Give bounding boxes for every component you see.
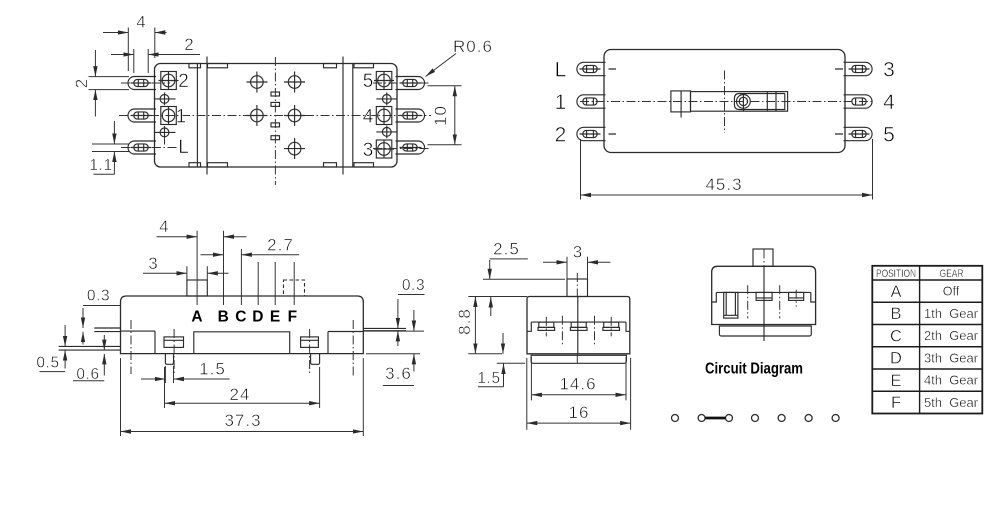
svg-text:POSITION: POSITION — [876, 268, 916, 280]
svg-text:1: 1 — [555, 91, 567, 114]
view2 terminal 5 — [844, 127, 873, 140]
svg-text:L: L — [178, 137, 189, 158]
table position letters — [890, 283, 902, 412]
view3 dim 37.3 line — [121, 431, 364, 433]
view5 right contact cup — [789, 292, 804, 300]
view3 dim 0.5 leader — [40, 371, 66, 373]
view5 section centerline — [763, 250, 765, 267]
svg-text:3: 3 — [883, 59, 895, 82]
svg-text:2: 2 — [72, 78, 91, 88]
svg-text:B: B — [890, 305, 901, 323]
view1 dim 4 extension lines — [128, 28, 155, 72]
svg-text:1.1: 1.1 — [89, 157, 112, 174]
view3 dim 0.5 arrows — [64, 325, 66, 346]
svg-text:C: C — [235, 308, 246, 325]
view1 right clip verticals — [343, 57, 353, 175]
svg-text:4: 4 — [136, 13, 146, 32]
svg-text:3th Gear: 3th Gear — [924, 352, 978, 366]
svg-text:A: A — [191, 308, 202, 325]
view1 right contact rect 5 — [374, 71, 394, 90]
view1 left contact rect 2 — [159, 71, 179, 90]
view1 terminal pin 2 (left top) — [128, 77, 156, 90]
view3 bottom right block — [328, 332, 363, 354]
view2 body outline — [604, 50, 845, 153]
view1 horizontal centerline (row 1-4) — [119, 115, 431, 117]
view4 dim 2.5 arrows — [489, 260, 491, 279]
view3 dim 3 extension ticks — [187, 266, 207, 280]
view4 dim 14.6 extension lines — [531, 357, 626, 400]
svg-text:4: 4 — [883, 91, 895, 114]
svg-text:14.6: 14.6 — [559, 375, 596, 394]
view4 centerlines between cups — [562, 316, 594, 345]
svg-text:F: F — [288, 308, 297, 325]
view1 dim 2 extension lines — [134, 49, 148, 73]
view1 terminal pin L (left bottom) — [128, 141, 156, 154]
view1 left clip verticals — [197, 57, 207, 175]
view2 terminal 2 — [577, 127, 606, 140]
view4 dim 1.5 arrows — [502, 333, 504, 354]
svg-text:24: 24 — [230, 385, 251, 404]
view2 terminal 1 — [577, 95, 606, 108]
view2 dim 45.3 line — [581, 194, 873, 196]
svg-text:L: L — [555, 59, 567, 82]
view3 left lower lead — [59, 346, 121, 350]
view1 terminal pin 1 (left mid) — [128, 109, 156, 122]
svg-text:1th Gear: 1th Gear — [924, 307, 978, 321]
svg-text:3: 3 — [148, 254, 158, 273]
view3 phantom knob position F — [284, 280, 305, 296]
table row lines — [872, 280, 982, 391]
view5 left contact well — [724, 292, 738, 318]
view4 dim 8.8 line — [474, 297, 476, 354]
view1 right contact rect 3 — [374, 140, 394, 159]
contact link bar between dot 2 and dot 3 — [705, 417, 725, 420]
view4 dim 16 line — [527, 422, 631, 424]
view1 dim 1.1 extension lines — [92, 144, 129, 152]
view2 slider left block — [671, 91, 691, 118]
svg-text:3: 3 — [363, 140, 374, 161]
view3 left upper lead — [94, 328, 120, 332]
view1 terminal pin 3 (right bottom) — [396, 141, 425, 154]
view4 terminal cup 3 — [603, 322, 620, 330]
view1 left small rivet circles — [154, 93, 176, 139]
svg-text:3.6: 3.6 — [385, 364, 412, 383]
svg-text:16: 16 — [569, 403, 590, 422]
table outer border — [872, 266, 982, 414]
view3 dim 0.6 arrows — [103, 335, 105, 350]
view1 dim 1.1 leader — [93, 173, 114, 175]
view4 terminal cup 1 — [538, 322, 555, 330]
svg-text:B: B — [218, 308, 229, 325]
view1 R0.6 leader — [426, 54, 457, 77]
view3 dim 24 line — [165, 402, 320, 404]
svg-text:8.8: 8.8 — [455, 308, 474, 335]
view3 position line F — [293, 262, 295, 305]
view4 body outline — [527, 297, 630, 354]
view3 dim 3.6 arrows — [413, 310, 415, 331]
view3 dim 2.7 arrows — [201, 254, 224, 256]
view5 centerlines — [748, 285, 780, 318]
view4 knob centerline — [576, 273, 578, 297]
view2 slider rivet — [737, 93, 751, 111]
view3 dim 1.5 extension lines — [165, 366, 173, 383]
table column divider — [919, 266, 921, 414]
svg-text:D: D — [890, 350, 902, 368]
view3 dim 1.5 arrows — [141, 378, 165, 380]
svg-text:0.6: 0.6 — [76, 366, 99, 383]
view1 left contact rect 1 — [161, 106, 177, 125]
view1 center movable contact circles — [247, 72, 306, 160]
view1 dim 2 arrows — [111, 54, 134, 56]
svg-text:E: E — [890, 372, 901, 390]
svg-text:F: F — [891, 394, 901, 412]
svg-text:D: D — [252, 308, 263, 325]
view3 dim 0.6 leader — [73, 380, 104, 382]
svg-text:0.3: 0.3 — [402, 277, 425, 294]
circuit diagram contact dots row — [672, 415, 840, 422]
view1 dim 10 line — [454, 86, 456, 145]
table gear cells — [924, 285, 978, 410]
svg-text:E: E — [270, 308, 280, 325]
view3 position line C — [240, 249, 242, 305]
view4 dim 3 extension ticks — [567, 257, 588, 279]
view3 knob — [187, 280, 207, 296]
view4 base plate — [531, 355, 626, 363]
svg-text:3: 3 — [573, 242, 583, 261]
view4 dim 2.5 extension line — [483, 278, 565, 280]
view3 position line D — [257, 262, 259, 305]
view5 middle contact cup — [756, 292, 772, 300]
svg-text:2th Gear: 2th Gear — [924, 329, 978, 343]
svg-text:10: 10 — [431, 105, 450, 126]
svg-text:Circuit Diagram: Circuit Diagram — [705, 361, 803, 378]
view1 dim 4 arrows — [103, 32, 128, 34]
view4 dim 2.5 leader — [490, 258, 528, 260]
svg-text:2.7: 2.7 — [267, 235, 294, 254]
view1 dim 2 vertical arrows — [94, 50, 96, 77]
view4 dim 3 arrows — [543, 261, 567, 263]
view1 terminal pin 5 (right top) — [396, 77, 425, 90]
svg-text:1.5: 1.5 — [477, 370, 500, 387]
view5 right cup centerline — [795, 290, 797, 307]
view5 body outline — [712, 266, 816, 324]
view3 dim 0.3 left arrows — [82, 308, 84, 328]
view2 terminal L — [577, 62, 606, 75]
view3 dim 0.3 left leader — [83, 305, 121, 307]
view3 bottom middle recess — [194, 332, 290, 354]
view1 row centerlines top and bottom — [121, 83, 431, 149]
view4 dim 14.6 line — [531, 394, 626, 396]
svg-text:5: 5 — [363, 71, 374, 92]
view3 position line A — [196, 231, 198, 305]
view3 dim 4 arrows — [157, 236, 198, 238]
svg-text:0.3: 0.3 — [87, 288, 110, 305]
view1 dim 2 vertical (left side) extension lines — [89, 77, 130, 90]
svg-text:4th Gear: 4th Gear — [924, 374, 978, 388]
view2 slider body — [691, 92, 788, 112]
view2 dim 45.3 extension lines — [581, 139, 873, 200]
view1 left clip tabs — [189, 64, 228, 168]
view2 horizontal centerline — [580, 101, 872, 103]
view3 left foot clip — [164, 337, 184, 348]
view4 terminal cup 2 — [570, 322, 587, 330]
view2 inner tick marks — [609, 69, 844, 134]
svg-text:45.3: 45.3 — [705, 175, 742, 194]
view2 vertical centerline — [724, 71, 726, 134]
view4 terminal cup 1 centerline — [545, 317, 547, 337]
view5 knob — [753, 249, 773, 266]
view4 dim 1.5 leader — [478, 386, 504, 388]
view3 dim 3 arrows — [143, 272, 187, 274]
view4 dim 1.5 extension line — [497, 362, 525, 364]
view3 body outline — [121, 296, 364, 354]
view1 right small rivet circles — [376, 93, 397, 139]
view3 right extension line — [363, 331, 424, 354]
svg-text:37.3: 37.3 — [224, 411, 261, 430]
view5 base plate — [719, 326, 811, 336]
view3 position letters — [191, 308, 297, 325]
view1 dim 10 extension lines — [428, 86, 462, 145]
view4 terminal cup 3 centerline — [610, 317, 612, 337]
view3 dim 24 extension lines — [165, 367, 320, 408]
view5 inner contour — [712, 292, 816, 302]
view3 centerlines — [131, 320, 353, 377]
view1 body outline — [155, 64, 398, 168]
svg-text:1.5: 1.5 — [199, 359, 226, 378]
view1 right contact rect 4 — [376, 106, 392, 125]
view1 terminal pin 4 (right mid) — [396, 109, 425, 122]
svg-text:4: 4 — [363, 107, 374, 128]
view2 terminal 4 — [844, 95, 873, 108]
view3 bottom left block — [121, 331, 156, 354]
view3 right lead — [363, 328, 406, 330]
svg-text:5th Gear: 5th Gear — [924, 396, 978, 410]
view1 vertical centerline — [274, 57, 276, 185]
view1 center slot rectangles — [271, 92, 280, 140]
svg-text:GEAR: GEAR — [940, 268, 964, 280]
view3 dim 3.6 leader — [383, 385, 414, 387]
view1 dim 1.1 arrows — [113, 121, 115, 144]
view4 dim 8.8 extension lines — [468, 297, 527, 354]
view3 position line E — [274, 262, 276, 305]
svg-text:4: 4 — [159, 217, 169, 236]
view3 dim 0.3 right arrows — [397, 299, 399, 328]
svg-text:2: 2 — [178, 71, 189, 92]
svg-text:Off: Off — [943, 285, 960, 299]
view1 right clip tabs — [324, 64, 374, 168]
svg-text:A: A — [890, 283, 901, 301]
svg-text:1: 1 — [176, 107, 187, 128]
svg-text:2: 2 — [555, 124, 567, 147]
view2 terminal 3 — [844, 62, 873, 75]
view3 left foot pin — [165, 354, 173, 365]
view3 dim 0.3 right leader — [398, 294, 425, 296]
view4 inner contour — [527, 322, 630, 331]
view4 center section line — [577, 297, 579, 354]
svg-text:R0.6: R0.6 — [453, 37, 493, 56]
view3 dim 37.3 extension lines — [121, 358, 364, 436]
view3 right foot clip — [301, 337, 319, 348]
svg-text:5: 5 — [883, 124, 895, 147]
view1 left small rivet centerline — [164, 139, 166, 145]
view4 dim 16 extension lines — [527, 358, 631, 430]
view3 right foot pin — [311, 354, 320, 365]
svg-text:2.5: 2.5 — [493, 239, 520, 258]
svg-text:2: 2 — [184, 35, 194, 54]
svg-text:C: C — [890, 328, 902, 346]
svg-text:0.5: 0.5 — [36, 354, 59, 371]
view4 knob — [567, 279, 588, 297]
view3 position line B — [223, 231, 225, 305]
